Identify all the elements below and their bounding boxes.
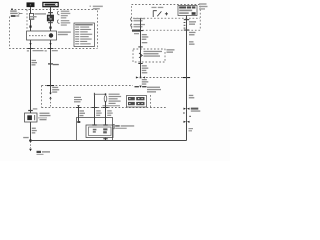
- label right wire lower: [189, 128, 194, 131]
- crossing tick x78: [76, 107, 81, 108]
- crossing tick x106: [103, 107, 108, 108]
- fuse A/C COMP: [29, 14, 33, 20]
- circuit label x140: [142, 34, 149, 43]
- compressor assembly outer box: [77, 118, 113, 141]
- wire x105.5 down: [105, 103, 107, 126]
- wire from banner1 to fuse1: [30, 7, 32, 13]
- text inside dashed box: [144, 51, 163, 57]
- note text above middle: [90, 6, 103, 10]
- connector brace C1: [57, 11, 59, 15]
- fuse block title text: [10, 9, 22, 17]
- label right of x50 below: [52, 87, 59, 93]
- fuse A/C 10A: [47, 15, 53, 21]
- ground arrow: [29, 149, 32, 151]
- relay coil circle: [49, 33, 53, 37]
- x98 circuit label: [96, 110, 102, 116]
- wire relay out right down: [50, 40, 52, 93]
- ground designator: [37, 151, 51, 155]
- connector tick above clutch box: [28, 110, 33, 111]
- wire x94.5 down: [94, 96, 96, 126]
- junction dot left: [29, 26, 31, 28]
- inline connector on right wire: [48, 63, 59, 65]
- wire relay out left down: [30, 40, 32, 113]
- label right of pin x140: [147, 87, 161, 93]
- circuit label right wire: [189, 41, 195, 45]
- inner connector box: [86, 125, 113, 138]
- legend box: [74, 23, 95, 47]
- module pin connector x140: [135, 86, 147, 88]
- ground bus line: [31, 140, 187, 142]
- crossing tick at box bottom x140: [138, 30, 143, 31]
- wire fuse2 to relay: [50, 21, 52, 31]
- inner box content marks: [93, 128, 108, 133]
- ground drop dashed: [30, 142, 32, 149]
- label below box right wire: [189, 32, 196, 36]
- inline connector pair right wire bottom: [184, 121, 190, 123]
- stub tick: [103, 138, 107, 139]
- clutch box label: [38, 113, 51, 121]
- inline connector pair right wire top: [184, 108, 190, 110]
- brace relay pins b: [131, 24, 133, 27]
- banner HOT IN RUN: [43, 2, 58, 6]
- connector brace C2: [57, 20, 59, 24]
- top right dashed box underhood fuse block: [132, 5, 201, 31]
- junction tick x98 at inner box: [92, 124, 96, 125]
- wire banner2 down: [50, 7, 52, 15]
- crossing tick left: [28, 48, 34, 49]
- label on ground wire: [32, 128, 37, 134]
- connector label dark: [191, 108, 201, 112]
- wire from relay down x140: [140, 18, 142, 77]
- tick below dashed box: [138, 63, 142, 64]
- relay label: [58, 31, 71, 35]
- pin text left: [134, 33, 139, 34]
- low reference label: [74, 97, 82, 103]
- dashed segment connector: [186, 111, 188, 121]
- pcm pin table box: [127, 96, 147, 108]
- text right of dashed box: [167, 49, 175, 53]
- relay label top: [152, 7, 164, 8]
- wire fuse1 to relay: [30, 20, 32, 32]
- tick on wire x140: [138, 46, 142, 47]
- pin num marks left of wires: [27, 50, 47, 51]
- pcm bottom dashed boundary: [42, 86, 167, 108]
- pin label right below: [52, 50, 58, 51]
- circuit label left wire: [32, 60, 38, 66]
- relay box A/C compressor relay (in fuse block): [27, 31, 57, 40]
- a/c relay symbol: [153, 11, 168, 18]
- fuse box top right: [178, 6, 197, 16]
- right wire from fuse down: [186, 16, 188, 141]
- label right wire below junction: [189, 95, 195, 99]
- inline connector arrows x140: [136, 77, 145, 79]
- side ticks: [183, 113, 191, 117]
- label right of tick: [33, 108, 38, 109]
- clutch diode feed line: [94, 93, 107, 96]
- wire clutch box down to bus: [30, 122, 32, 141]
- fuse block underhood dashed box (left): [10, 10, 98, 49]
- splice label left: [23, 137, 29, 138]
- pin arrow right: [49, 43, 51, 45]
- junction dot right: [49, 27, 51, 29]
- circuit label below junction x140: [142, 79, 149, 85]
- pcm row label above boundary: [103, 105, 121, 106]
- tick below fuse2: [48, 22, 53, 23]
- circuit label below box x140: [142, 65, 149, 73]
- crossing tick at box bottom right wire: [184, 30, 189, 31]
- brace2 text: [61, 20, 71, 26]
- banner HOT AT ALL TIMES: [27, 2, 35, 7]
- dashed boundary A right: [146, 77, 184, 79]
- fuse block internal partition: [26, 10, 28, 31]
- pointer bracket label right of box: [113, 124, 134, 129]
- clutch diode oval: [104, 96, 107, 102]
- relay internal contacts: [29, 35, 46, 37]
- junction dot ground bus: [29, 139, 32, 142]
- dashed box a/c pressure switch: [133, 49, 165, 62]
- stub inner box to ground bus: [105, 138, 107, 141]
- pin label left below: [33, 50, 44, 51]
- crossing tick right: [48, 48, 54, 49]
- inner inner box: [89, 127, 112, 136]
- fuse1 label: [30, 13, 46, 19]
- dark connector label on bottom edge: [132, 30, 141, 32]
- brace relay pins a: [131, 18, 133, 21]
- module pin arrow down x50: [49, 93, 51, 95]
- crossing tick x98: [92, 107, 97, 108]
- switch symbol inside: [139, 53, 142, 58]
- diode label: [109, 94, 122, 104]
- pin arrow down x78: [77, 105, 79, 107]
- pin tick marks column: [184, 22, 186, 29]
- dashed boundary B left: [42, 85, 134, 87]
- wire x78 down: [78, 108, 80, 123]
- x78 circuit label: [80, 110, 86, 116]
- x78 pin mark bottom: [77, 121, 80, 123]
- x106 circuit label: [107, 110, 113, 116]
- junction tick x106 at inner box: [103, 124, 107, 125]
- pin arrow left: [29, 43, 31, 45]
- connector tick on wire at box edge: [48, 12, 53, 13]
- dashed wire inside module x50: [50, 99, 52, 108]
- tick on right wire at internal dashed: [184, 19, 189, 20]
- label right of wire in box: [189, 21, 196, 25]
- a/c compressor clutch box: [25, 113, 38, 122]
- dashed partition right of pcm table: [150, 95, 152, 108]
- underhood fuse block label right: [199, 3, 208, 9]
- junction right wire with boundary A: [183, 77, 190, 78]
- module pin arrow up x50: [49, 97, 51, 99]
- brace1 text: [61, 11, 71, 19]
- junction of wire x50 with boundary B: [47, 85, 54, 86]
